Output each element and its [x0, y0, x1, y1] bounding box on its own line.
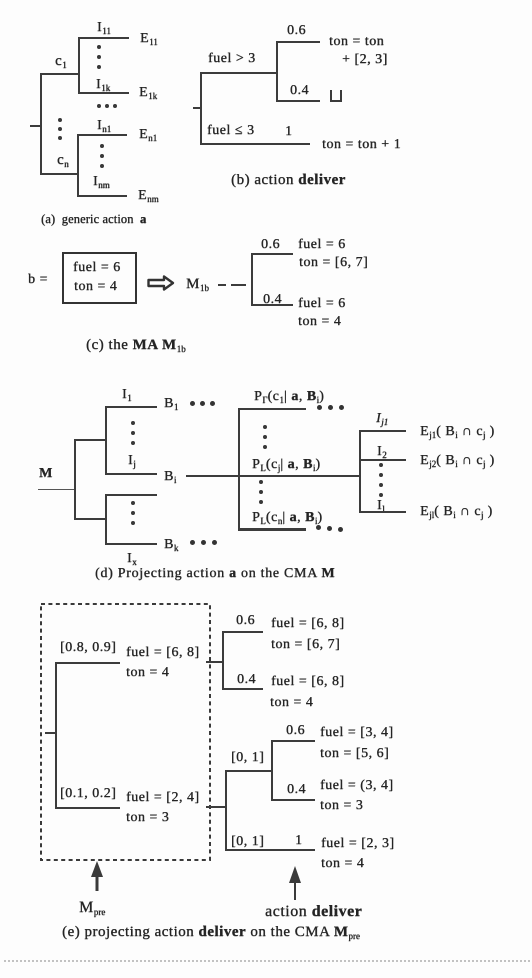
wire: (e) leaf 0.4 top	[222, 688, 263, 690]
label 0.6	[261, 237, 280, 253]
label E_j2	[420, 453, 495, 469]
label 0.4	[237, 672, 256, 688]
label Bk	[164, 537, 178, 553]
arrow to action deliver	[287, 865, 303, 901]
caption (c)	[86, 337, 186, 354]
wire: (a) branch c1	[40, 73, 80, 75]
dots cn bracket	[100, 144, 104, 148]
wire: (e) leaf 0.6 top	[222, 631, 263, 633]
label I1k	[96, 77, 110, 93]
label ton = 4 second	[270, 695, 313, 711]
label fuel = [6, 8]	[271, 616, 345, 632]
dots after P bottom leaf	[316, 525, 321, 530]
label E11	[140, 31, 158, 47]
label ton = 4 node	[126, 665, 169, 681]
wire: (a) leaf I1k	[78, 92, 129, 94]
wire: (c) dash	[218, 284, 226, 286]
caption (e)	[62, 924, 360, 941]
label P_L(cj| a, Bi)	[252, 457, 321, 473]
wire: (c) link	[231, 284, 246, 286]
wire: (e) inner bracket	[271, 740, 273, 801]
wire: (a) cn bracket	[77, 134, 79, 197]
label M1b	[186, 276, 209, 293]
bottom symbol square cup	[330, 90, 342, 102]
label 0.6 bottom	[286, 723, 305, 739]
hollow arrow	[146, 274, 176, 292]
label fuel = [6, 8] node	[126, 645, 200, 661]
wire: (d) right bracket	[359, 430, 361, 513]
label Enm	[138, 188, 159, 204]
dots right bracket	[379, 463, 383, 467]
label P_L(cn| a, Bi)	[252, 510, 323, 526]
bottom dotted rule	[4, 960, 530, 962]
dots after P top leaf	[317, 405, 322, 410]
label Ij	[128, 453, 136, 469]
label c1	[55, 53, 67, 70]
wire: (d) right leaf 3	[359, 511, 406, 513]
label + [2, 3]	[342, 52, 388, 68]
label ton = ton	[329, 34, 384, 50]
wire: (b) root bracket	[200, 72, 202, 145]
label ton = ton + 1	[322, 137, 401, 153]
wire: (b) upper bracket	[276, 41, 278, 102]
label fuel = 6 (box)	[73, 260, 121, 276]
label Bi	[164, 469, 176, 485]
wire: (e) link bottom	[206, 806, 227, 808]
label En1	[139, 127, 157, 143]
wire: (d) upper bracket	[105, 406, 107, 475]
wire: (d) middle bottom leaf	[238, 528, 306, 531]
label 0.6	[236, 613, 255, 629]
wire: (d) bottom branch	[74, 518, 107, 520]
label cn	[57, 152, 69, 169]
wire: (d) main bracket	[74, 439, 76, 520]
wire: (e) leaf 0.6 bottom	[271, 740, 315, 742]
label 1	[285, 124, 293, 140]
wire: (a) c1 bracket	[78, 37, 80, 94]
label ton = [6, 7]	[299, 255, 368, 271]
wire: (a) leaf I11	[78, 37, 129, 39]
label fuel > 3	[208, 51, 256, 67]
label ton = 4 (box)	[74, 279, 117, 295]
caption (d)	[95, 566, 335, 582]
wire: (d) right leaf 1	[359, 430, 406, 432]
label M	[39, 466, 53, 482]
wire: (e) link top	[206, 661, 223, 663]
label fuel = 6	[298, 237, 346, 253]
wire: (e) lower bracket	[225, 770, 227, 851]
wire: (d) root	[38, 489, 76, 490]
dots middle upper	[263, 425, 267, 429]
label [0, 1] bottom	[231, 834, 264, 850]
caption (a)	[41, 212, 146, 226]
label b =	[28, 272, 48, 288]
dots after Bk	[190, 540, 195, 545]
wire: (c) bracket	[251, 253, 253, 306]
label [0.1, 0.2]	[60, 786, 116, 802]
wire: (e) leaf 0.4 bottom	[271, 799, 315, 801]
wire: (d) leaf Bk	[105, 543, 157, 545]
wire: (d) lower bracket	[105, 494, 107, 545]
label fuel = [6, 8] second	[271, 674, 345, 690]
label Mpre	[79, 899, 105, 917]
dots middle lower	[259, 480, 263, 484]
dashed box Mpre	[39, 602, 212, 862]
label [0.8, 0.9]	[60, 640, 116, 656]
label P_G(c1| a, Bi)	[254, 389, 324, 405]
wire: (a) leaf In1	[77, 134, 127, 136]
label B1	[164, 396, 178, 412]
label ton = 4 lower	[298, 314, 341, 330]
wire: (e) top branch	[55, 662, 120, 664]
wire: (b) branch fuel<=3	[200, 143, 310, 145]
label I1	[122, 387, 132, 403]
wire: (e) bottom branch	[55, 807, 120, 809]
wire: (e) root tick	[45, 732, 56, 734]
wire: (b) leaf 0.6	[276, 41, 320, 43]
label 1	[295, 833, 303, 849]
label 0.4	[263, 292, 282, 308]
wire: (d) lower top leaf	[105, 494, 157, 496]
label ton = 4 bottom	[321, 856, 364, 872]
dots root bracket	[58, 118, 62, 122]
label action deliver	[265, 903, 362, 921]
wire: (e) main bracket	[55, 662, 57, 809]
wire: (c) leaf 0.6	[251, 253, 293, 255]
wire: (e) branch [0,1] bottom	[225, 849, 315, 851]
wire: (d) leaf B1	[105, 406, 157, 408]
label Ij1	[376, 411, 388, 427]
label ton = [5, 6]	[320, 746, 389, 762]
label I11	[97, 20, 111, 36]
wire: (d) Bi long line	[186, 475, 361, 477]
label ton = 3 lower	[320, 798, 363, 814]
caption (b)	[231, 172, 346, 189]
wire: (a) leaf Inm	[77, 195, 127, 197]
dots lower bracket	[131, 501, 135, 505]
dots c1 bracket	[97, 45, 101, 49]
label Ix	[127, 551, 137, 567]
wire: (e) branch [0,1] top	[225, 770, 273, 772]
label 0.4 bottom	[287, 782, 306, 798]
wire: (a) root bracket	[40, 73, 42, 175]
label fuel = [2, 4]	[126, 790, 200, 806]
wire: (a) branch cn	[40, 173, 79, 175]
wire: (d) middle bracket	[238, 408, 240, 530]
label Il	[377, 498, 385, 514]
state box	[62, 252, 137, 304]
wire: (d) top branch	[74, 439, 107, 441]
wire: (d) middle top leaf	[238, 408, 306, 410]
wire: (c) leaf 0.4	[251, 304, 293, 306]
label fuel = 6 lower	[298, 296, 346, 312]
wire: (d) right leaf 2	[359, 459, 406, 461]
wire: (b) root tick	[193, 107, 202, 109]
label In1	[97, 118, 111, 134]
label fuel <= 3	[207, 123, 254, 139]
label 0.4	[290, 83, 309, 99]
label fuel = (3, 4]	[320, 778, 394, 794]
wire: (b) leaf 0.4	[276, 100, 320, 102]
label E_j1	[420, 424, 495, 440]
wire: (b) branch fuel>3	[200, 72, 278, 74]
label ton = [6, 7]	[271, 637, 340, 653]
wire: (a) root	[30, 125, 42, 127]
label E1k	[139, 85, 157, 101]
label fuel = [2, 3]	[321, 836, 395, 852]
label [0, 1] top	[231, 750, 264, 766]
dots ellipsis between groups	[97, 104, 101, 108]
wire: (e) upper bracket	[222, 631, 224, 690]
arrow to Mpre	[89, 860, 105, 894]
label ton = 3	[126, 810, 169, 826]
label Inm	[93, 174, 110, 190]
label E_jl	[420, 504, 493, 520]
label fuel = [3, 4]	[320, 725, 394, 741]
label 0.6	[287, 23, 306, 39]
wire: (d) leaf Bi	[105, 473, 157, 475]
dots upper bracket	[131, 421, 135, 425]
dots after B1	[190, 401, 195, 406]
label I2	[377, 444, 387, 460]
